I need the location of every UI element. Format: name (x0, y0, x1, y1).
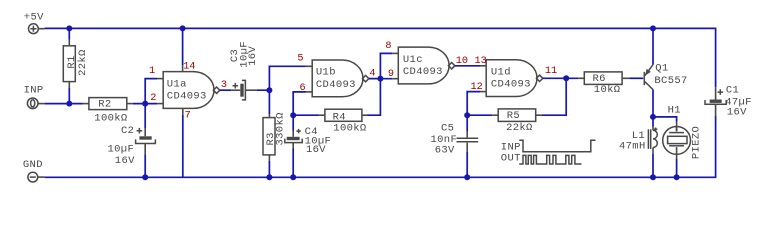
svg-text:+5V: +5V (24, 12, 44, 24)
svg-text:CD4093: CD4093 (403, 66, 443, 78)
svg-text:1: 1 (149, 66, 155, 77)
node GND junction R3 (266, 174, 272, 180)
node rail junction R1 top (66, 25, 72, 31)
svg-text:R5: R5 (507, 110, 520, 122)
svg-text:U1b: U1b (316, 67, 336, 79)
node INP junction at pins 1-2 net (142, 101, 148, 107)
wire pin7 to GND (182, 115, 184, 178)
node INP junction at R1 bottom (66, 101, 72, 107)
node GND junction H1 (674, 174, 680, 180)
svg-text:10kΩ: 10kΩ (594, 84, 621, 96)
svg-text:CD4093: CD4093 (167, 91, 207, 103)
wire R3 to GND (268, 161, 270, 177)
GND terminal (23, 159, 45, 182)
svg-text:OUT: OUT (501, 152, 521, 164)
capacitor C4 10uF polarized (285, 126, 331, 156)
inductor L1 47mH (619, 127, 657, 154)
capacitor C1 47uF polarized on right rail (705, 85, 752, 119)
node junction pin6/R4/C4 (290, 112, 296, 118)
wire C4 to GND (292, 149, 294, 178)
wire +5V top rail (45, 28, 716, 87)
svg-text:PIEZO: PIEZO (690, 126, 702, 159)
svg-text:16V: 16V (306, 144, 326, 156)
wire GND bottom rail (45, 116, 716, 177)
node junction pin12/R5/C5 (464, 112, 470, 118)
capacitor C2 10uF polarized (108, 125, 156, 167)
wire Q1 collector down (652, 90, 654, 127)
svg-text:22kΩ: 22kΩ (77, 49, 89, 76)
svg-text:C1: C1 (726, 85, 739, 97)
svg-text:16V: 16V (727, 106, 747, 118)
wire pin6 net down to R4/C4 (293, 92, 306, 131)
node junction U1d out/R5/R6 (563, 75, 569, 81)
svg-text:R4: R4 (333, 111, 346, 123)
wire U1c out to U1d pin13 (455, 65, 480, 67)
svg-text:GND: GND (23, 159, 43, 171)
svg-text:C2: C2 (121, 125, 134, 137)
svg-text:7: 7 (185, 111, 191, 122)
buzzer H1 PIEZO (663, 105, 703, 160)
svg-text:14: 14 (183, 61, 195, 72)
resistor R1 22k vertical (63, 28, 89, 103)
svg-text:16V: 16V (115, 155, 135, 167)
node junction U1b out/pin8/pin9/R4 (377, 76, 383, 82)
svg-text:H1: H1 (668, 105, 681, 117)
INP input terminal (24, 84, 45, 108)
svg-text:U1c: U1c (403, 54, 423, 66)
wire R5 right up to U1d output junction (542, 78, 567, 115)
svg-text:R2: R2 (98, 98, 111, 110)
svg-text:INP: INP (24, 84, 44, 96)
op-amp U1b NAND gate CD4093 (297, 54, 375, 97)
svg-text:8: 8 (385, 41, 391, 52)
svg-text:CD4093: CD4093 (316, 79, 356, 91)
transistor Q1 BC557 PNP (644, 62, 687, 89)
svg-text:10µF: 10µF (108, 144, 135, 156)
svg-text:5: 5 (297, 54, 303, 65)
node GND junction C2 (142, 174, 148, 180)
wire pin12 net down to R5/C5 (467, 92, 480, 131)
node rail junction Q1 emitter (650, 25, 656, 31)
wire H1 to GND (676, 159, 678, 177)
svg-text:47mH: 47mH (619, 140, 646, 152)
svg-text:11: 11 (545, 66, 557, 77)
node GND junction L1 (650, 174, 656, 180)
svg-text:100kΩ: 100kΩ (94, 112, 127, 124)
svg-text:2: 2 (150, 93, 156, 104)
wire collector branch to H1 (653, 117, 677, 122)
wire Q1 emitter to +5V rail (652, 28, 654, 64)
svg-text:BC557: BC557 (654, 75, 687, 87)
svg-text:16V: 16V (247, 46, 259, 66)
wire R4 right up to U1b output junction, pins 8/9 (368, 53, 393, 115)
resistor R3 330k vertical (263, 112, 286, 161)
svg-text:CD4093: CD4093 (491, 79, 531, 91)
capacitor C3 10uF polarized horizontal (229, 41, 259, 100)
wire C2 to GND (144, 154, 146, 177)
+5V supply terminal (24, 12, 45, 34)
wire pin1 net L-shape (145, 79, 157, 129)
svg-text:U1a: U1a (167, 78, 187, 90)
svg-text:C5: C5 (441, 122, 454, 134)
resistor R2 100k horizontal (83, 98, 133, 125)
wire INP net (45, 103, 157, 105)
svg-text:13: 13 (475, 56, 487, 67)
op-amp U1d NAND gate CD4093 (471, 56, 558, 97)
wire U1a output (220, 89, 231, 91)
node GND junction C4 (290, 174, 296, 180)
waveform annotation INP/OUT (501, 140, 596, 164)
op-amp U1c NAND gate CD4093 (385, 41, 468, 84)
wire C5 to GND (466, 152, 468, 178)
svg-text:63V: 63V (435, 145, 455, 157)
wire L1 to GND (652, 154, 654, 177)
capacitor C5 10nF (431, 122, 479, 156)
svg-text:Q1: Q1 (655, 62, 668, 74)
resistor R5 22k horizontal (467, 109, 542, 134)
node GND junction C5 (464, 174, 470, 180)
wire U1d out to R6 (543, 77, 579, 79)
svg-text:22kΩ: 22kΩ (506, 122, 533, 134)
wire pin14 to +5V (182, 28, 184, 65)
node rail junction pin14 (180, 25, 186, 31)
node junction C3/R3/pin5 (266, 87, 272, 93)
svg-text:100kΩ: 100kΩ (333, 123, 366, 135)
resistor R6 10k horizontal (578, 72, 629, 96)
wire R6 to Q1 base (629, 77, 643, 79)
svg-text:U1d: U1d (491, 67, 511, 79)
op-amp U1a NAND gate CD4093 (149, 61, 227, 121)
node junction collector/L1/H1 (650, 114, 656, 120)
svg-text:9: 9 (388, 69, 394, 80)
resistor R4 100k horizontal (293, 109, 367, 135)
wire C3 out to junction and up to pin5 (257, 66, 306, 114)
